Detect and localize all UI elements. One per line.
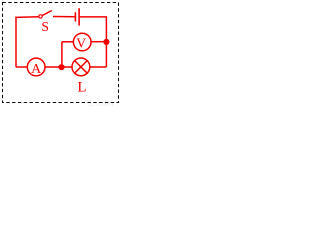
ammeter A circle: [27, 58, 45, 76]
wire ammeter to bottom-left corner: [16, 66, 27, 68]
battery long plate: [78, 8, 80, 25]
node junction dot right: [103, 39, 109, 45]
battery short plate: [74, 12, 76, 21]
lamp L circle: [72, 58, 90, 76]
voltmeter V circle: [73, 33, 91, 51]
wire riser to voltmeter: [62, 41, 74, 43]
border frame (dashed): [3, 3, 119, 103]
node junction dot left: [58, 64, 64, 70]
svg-text:V: V: [76, 37, 86, 52]
wire voltmeter riser: [61, 42, 63, 67]
background: [0, 0, 123, 107]
svg-text:S: S: [41, 19, 49, 34]
switch S pivot circle: [39, 15, 42, 18]
wire left vertical: [15, 17, 17, 68]
wire switch to battery: [53, 16, 75, 18]
wire voltmeter to right node: [91, 41, 106, 43]
lamp X cross: [75, 61, 88, 74]
wire top-left horizontal: [16, 16, 39, 19]
wire node to ammeter: [45, 66, 62, 68]
svg-text:A: A: [31, 62, 42, 77]
wire lamp to node: [62, 66, 73, 68]
switch S blade: [42, 11, 51, 16]
svg-text:L: L: [77, 79, 86, 95]
wire battery to top-right corner: [80, 16, 107, 18]
wire bottom right (lamp to right wire): [90, 66, 107, 68]
wire right vertical: [105, 16, 107, 67]
